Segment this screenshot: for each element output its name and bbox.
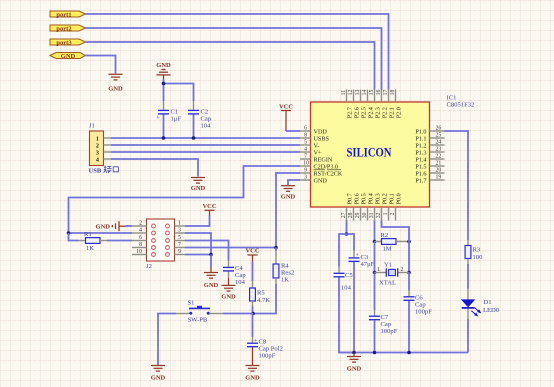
IC right pin stubs	[430, 131, 445, 180]
wire XTAL2 down to C6	[408, 273, 410, 291]
svg-text:Cap: Cap	[235, 272, 246, 279]
svg-text:RST/C2CK: RST/C2CK	[314, 170, 343, 177]
svg-text:P2.5: P2.5	[361, 107, 368, 118]
svg-text:1: 1	[96, 135, 99, 142]
wire port1 to P2.1	[86, 14, 389, 90]
wire S1 right to node	[223, 313, 253, 315]
svg-text:1: 1	[178, 221, 181, 227]
svg-text:+: +	[156, 115, 160, 122]
crystal Y1 XTAL	[375, 261, 410, 286]
wire junction to J2 pin 4	[69, 232, 133, 234]
wire C2 bottom	[193, 115, 195, 139]
svg-text:C5: C5	[345, 272, 353, 279]
svg-text:GND: GND	[108, 86, 123, 93]
svg-text:P2.3: P2.3	[375, 107, 382, 118]
diode D1 LED0	[461, 289, 500, 320]
svg-text:R5: R5	[257, 290, 265, 297]
svg-text:32: 32	[376, 212, 382, 218]
svg-text:P1.3: P1.3	[415, 149, 426, 156]
capacitor C6	[404, 291, 433, 316]
wire J1 pin4 to ground	[111, 159, 198, 177]
svg-text:6: 6	[139, 235, 142, 241]
svg-text:C2D/P3.0: C2D/P3.0	[314, 163, 339, 170]
node RST R4 junction	[274, 246, 278, 250]
svg-text:22: 22	[436, 154, 442, 160]
svg-text:2: 2	[96, 142, 99, 149]
svg-text:4: 4	[139, 228, 142, 234]
capacitor C7	[369, 310, 398, 335]
wire XTAL1 down to C7	[374, 273, 376, 311]
svg-text:28: 28	[348, 212, 354, 218]
node R2 right	[407, 240, 411, 244]
IC left pin numbers	[303, 126, 309, 181]
port flag port3	[50, 39, 86, 46]
svg-text:20: 20	[436, 168, 442, 174]
svg-text:P2.2: P2.2	[382, 107, 389, 118]
capacitor C1	[156, 101, 181, 123]
wire C6 to rail	[408, 301, 410, 353]
svg-text:Cap: Cap	[415, 302, 426, 309]
wire P0.2 over to R2 right	[382, 221, 410, 242]
node rail C7	[373, 351, 377, 355]
svg-text:GND: GND	[281, 194, 296, 201]
node C1 C2 ground junction	[162, 82, 166, 86]
svg-text:1K: 1K	[281, 277, 289, 284]
connector J2 header	[132, 219, 185, 270]
svg-text:7: 7	[178, 242, 181, 248]
svg-text:19: 19	[436, 175, 442, 181]
wire ground rail	[339, 352, 468, 354]
svg-text:30: 30	[362, 212, 368, 218]
wire C4 to ground	[228, 272, 230, 279]
IC left pin names	[314, 128, 343, 184]
svg-text:9: 9	[304, 168, 307, 174]
svg-text:IC1: IC1	[447, 95, 457, 102]
wire C3 to rail	[353, 262, 355, 353]
svg-text:R4: R4	[281, 263, 289, 270]
wire J2 pin 3 down to ground node	[185, 233, 211, 255]
wire J1 pin3 to V+	[111, 151, 300, 153]
svg-text:GND: GND	[314, 177, 328, 184]
svg-text:GND: GND	[96, 224, 111, 231]
svg-text:R1: R1	[84, 231, 92, 238]
wire ground to J2 pin 2	[126, 225, 132, 227]
ground rotated at J2 pin 2	[96, 221, 126, 231]
svg-text:C4: C4	[235, 265, 243, 272]
wire R4 bottom to switch node	[253, 284, 276, 314]
svg-text:12: 12	[348, 90, 354, 96]
svg-text:100pF: 100pF	[381, 328, 398, 335]
svg-text:port3: port3	[56, 39, 72, 46]
switch S1 SW-PB	[176, 300, 223, 324]
connector J1	[89, 123, 119, 175]
capacitor C8	[247, 337, 283, 360]
svg-text:VCC: VCC	[202, 203, 216, 210]
wire C5 to rail	[339, 277, 354, 352]
svg-text:VDD: VDD	[314, 128, 328, 135]
svg-text:2: 2	[390, 212, 396, 215]
node R2 left	[373, 240, 377, 244]
svg-text:P1.5: P1.5	[415, 163, 426, 170]
svg-text:3: 3	[178, 228, 181, 234]
svg-text:P1.4: P1.4	[415, 156, 426, 163]
node J2 ground junction	[209, 253, 213, 257]
svg-text:9: 9	[178, 249, 181, 255]
svg-text:5: 5	[304, 140, 307, 146]
svg-text:REGIN: REGIN	[314, 156, 333, 163]
svg-text:VCC: VCC	[279, 104, 293, 111]
resistor R5	[250, 262, 271, 307]
svg-text:P0.1: P0.1	[389, 193, 396, 204]
svg-text:25: 25	[436, 133, 442, 139]
svg-text:47μF: 47μF	[361, 261, 375, 268]
svg-text:VCC: VCC	[245, 248, 259, 255]
power VCC at IC pin 6	[279, 104, 293, 132]
svg-text:C8: C8	[259, 339, 267, 346]
wire J1 pin2 to V-	[111, 144, 300, 146]
svg-text:GND: GND	[204, 282, 219, 289]
svg-text:7: 7	[304, 154, 307, 160]
svg-text:104: 104	[201, 123, 212, 130]
node rail C3	[352, 351, 356, 355]
wire C1 bottom	[163, 115, 165, 139]
svg-text:S1: S1	[188, 300, 195, 307]
svg-text:4: 4	[304, 147, 307, 153]
svg-text:P2.0: P2.0	[396, 107, 403, 118]
svg-text:1: 1	[383, 212, 389, 215]
svg-text:C7: C7	[381, 314, 389, 321]
svg-text:V+: V+	[314, 149, 322, 156]
svg-text:10: 10	[136, 249, 142, 255]
wire P1.0 to R3	[445, 131, 469, 240]
svg-text:4: 4	[96, 156, 99, 163]
svg-text:USB: USB	[89, 168, 102, 175]
ground under GND flag	[109, 74, 123, 80]
svg-text:GND: GND	[347, 366, 362, 373]
ground under J2	[204, 268, 218, 279]
svg-text:P0.4: P0.4	[368, 193, 375, 204]
wire port2 to P2.2	[86, 28, 382, 90]
svg-text:15: 15	[369, 90, 375, 96]
ground at IC pin 3	[281, 186, 295, 192]
wire S1 left to ground	[158, 314, 176, 366]
svg-text:16: 16	[376, 90, 382, 96]
IC bottom pin numbers rotated	[341, 212, 396, 218]
svg-text:P0.2: P0.2	[382, 193, 389, 204]
wire R5 to switch node	[252, 307, 254, 314]
wire IC GND pin to ground	[288, 180, 300, 185]
svg-text:6: 6	[304, 126, 307, 132]
svg-text:C6: C6	[415, 295, 423, 302]
svg-text:port1: port1	[56, 11, 71, 18]
wire branch to C3	[347, 234, 355, 251]
wire P0.3 down to R2	[374, 221, 376, 242]
svg-text:GND: GND	[191, 185, 206, 192]
wire node down to C8	[252, 314, 254, 338]
svg-text:3: 3	[96, 149, 99, 156]
wire junction down to R1	[69, 233, 79, 241]
wire C2D P3.0 to J2 net	[69, 166, 301, 233]
svg-text:1μF: 1μF	[171, 116, 182, 123]
svg-text:P2.1: P2.1	[389, 107, 396, 118]
IC bottom pin stubs	[347, 207, 396, 221]
IC left pin stubs	[300, 131, 311, 180]
svg-text:P1.1: P1.1	[415, 135, 426, 142]
svg-text:Cap Pol2: Cap Pol2	[259, 346, 283, 353]
svg-text:27: 27	[341, 212, 347, 218]
svg-text:18: 18	[390, 90, 396, 96]
node R1 junction	[67, 231, 71, 235]
svg-text:P1.2: P1.2	[415, 142, 426, 149]
wire node to ground	[210, 255, 212, 268]
svg-text:SW-PB: SW-PB	[188, 317, 208, 324]
svg-text:23: 23	[436, 147, 442, 153]
node XTAL pin 1	[373, 271, 377, 275]
wire port3 to P2.3	[86, 42, 375, 90]
svg-text:100pF: 100pF	[415, 309, 432, 316]
resistor R2	[375, 232, 410, 253]
op-amp U1 IC1 C8051F32 body	[311, 95, 475, 208]
svg-text:14: 14	[362, 90, 368, 96]
svg-text:V-: V-	[314, 142, 320, 149]
wire C7 to rail	[374, 320, 376, 352]
port flag port1	[50, 11, 86, 18]
svg-text:4.7K: 4.7K	[257, 297, 270, 304]
node C3 C5 branch	[345, 232, 349, 236]
wire R1 to J2 pin 6	[107, 240, 132, 242]
svg-text:P0.3: P0.3	[375, 193, 382, 204]
svg-text:31: 31	[369, 212, 375, 218]
node XTAL pin 2	[407, 271, 411, 275]
svg-text:J2: J2	[146, 263, 152, 270]
svg-text:Y1: Y1	[384, 261, 392, 268]
wire C8 to ground	[252, 347, 254, 365]
node C2 junction	[192, 136, 196, 140]
power VCC at J2 pin 1	[202, 203, 216, 216]
wire branch to C5	[339, 234, 347, 267]
wire RST C2CK down to R4 node	[276, 173, 300, 248]
svg-text:17: 17	[383, 90, 389, 96]
resistor R3	[465, 240, 483, 264]
IC top pin names rotated	[347, 107, 403, 118]
wire GND flag to ground	[86, 56, 116, 74]
svg-text:R3: R3	[473, 247, 481, 254]
ground under C8	[246, 366, 260, 372]
svg-text:GND: GND	[221, 294, 236, 301]
svg-text:10: 10	[303, 161, 309, 167]
ground under C4	[222, 278, 236, 291]
node rail C6	[407, 351, 411, 355]
svg-text:104: 104	[341, 285, 352, 292]
svg-text:R2: R2	[381, 232, 389, 239]
wire J1 pin1 to USBS	[111, 137, 300, 139]
svg-text:P0.5: P0.5	[361, 193, 368, 204]
svg-text:LED0: LED0	[483, 307, 500, 314]
svg-text:Res2: Res2	[281, 270, 294, 277]
IC right pin names	[415, 128, 426, 184]
IC top pin numbers rotated	[341, 90, 396, 96]
IC bottom pin names rotated	[347, 193, 403, 204]
power port flag GND	[50, 53, 86, 61]
IC top pin stubs	[347, 90, 396, 103]
svg-text:P2.7: P2.7	[347, 107, 354, 118]
svg-text:P0.7: P0.7	[347, 193, 354, 204]
capacitor C2	[188, 101, 212, 130]
wire J2 pin 7 to R4 node	[185, 247, 276, 249]
svg-text:100pF: 100pF	[259, 353, 276, 360]
svg-text:GND: GND	[156, 62, 171, 69]
svg-text:port2: port2	[56, 25, 71, 32]
svg-text:C1: C1	[171, 109, 179, 116]
svg-text:P1.6: P1.6	[415, 170, 426, 177]
svg-text:+: +	[254, 337, 258, 344]
svg-text:Cap: Cap	[201, 116, 212, 123]
svg-text:XTAL: XTAL	[379, 279, 396, 286]
node C1 junction	[162, 136, 166, 140]
svg-text:P2.4: P2.4	[368, 107, 375, 118]
svg-text:24: 24	[436, 140, 442, 146]
svg-text:C2: C2	[201, 109, 209, 116]
capacitor C3	[349, 251, 375, 268]
svg-text:GND: GND	[151, 375, 166, 382]
wire R2 left down to XTAL	[374, 242, 376, 273]
svg-text:8: 8	[304, 133, 307, 139]
svg-text:P0.0: P0.0	[396, 193, 403, 204]
wire J2 pin 9 to ground node	[185, 254, 211, 256]
svg-text:11: 11	[341, 90, 347, 96]
ground at J1 pin4	[191, 178, 205, 184]
resistor R1	[79, 231, 108, 252]
svg-text:2: 2	[139, 221, 142, 227]
wire to C2 top	[164, 84, 194, 102]
wire J2 pin 1 to VCC	[185, 216, 210, 227]
wire ground to C1 C2 tops	[163, 79, 165, 101]
svg-text:D1: D1	[484, 299, 492, 306]
svg-text:GND: GND	[61, 53, 76, 60]
ground under S1	[151, 366, 165, 372]
power VCC at R5	[245, 248, 259, 262]
svg-text:P0.6: P0.6	[354, 193, 361, 204]
svg-text:8: 8	[139, 242, 142, 248]
inverted ground above C1 C2	[156, 62, 171, 80]
svg-text:SILICON: SILICON	[347, 146, 392, 160]
svg-text:100: 100	[473, 254, 484, 261]
svg-text:1K: 1K	[86, 245, 94, 252]
port flag port2	[50, 25, 86, 32]
svg-text:C8051F32: C8051F32	[447, 102, 475, 109]
svg-text:P1.0: P1.0	[415, 128, 426, 135]
svg-text:1M: 1M	[383, 246, 392, 253]
capacitor C4	[223, 261, 246, 287]
IC right pin numbers	[436, 126, 442, 181]
svg-text:+: +	[356, 252, 360, 259]
resistor R4	[273, 248, 294, 285]
svg-text:J1: J1	[89, 123, 95, 130]
capacitor C5	[334, 267, 354, 292]
svg-text:USBS: USBS	[314, 135, 330, 142]
ground on rail	[347, 353, 361, 363]
svg-text:Cap: Cap	[381, 321, 392, 328]
svg-text:P1.7: P1.7	[415, 177, 426, 184]
svg-text:GND: GND	[245, 375, 260, 382]
svg-text:21: 21	[436, 161, 442, 167]
svg-text:29: 29	[355, 212, 361, 218]
svg-text:P2.6: P2.6	[354, 107, 361, 118]
svg-text:C3: C3	[361, 254, 369, 261]
svg-text:104: 104	[235, 279, 246, 286]
wire R2 right down to XTAL	[408, 242, 410, 273]
svg-text:3: 3	[304, 175, 307, 181]
wire R3 to LED	[467, 264, 469, 289]
wire J2 pin 5 to C4	[185, 241, 229, 261]
node switch junction	[251, 312, 255, 316]
wire LED to rail	[467, 319, 469, 353]
svg-text:5: 5	[178, 235, 181, 241]
svg-text:13: 13	[355, 90, 361, 96]
wire VCC to VDD	[286, 130, 300, 132]
svg-text:26: 26	[436, 126, 442, 132]
wire P0.7 down to C3 C5 branch	[346, 221, 348, 235]
